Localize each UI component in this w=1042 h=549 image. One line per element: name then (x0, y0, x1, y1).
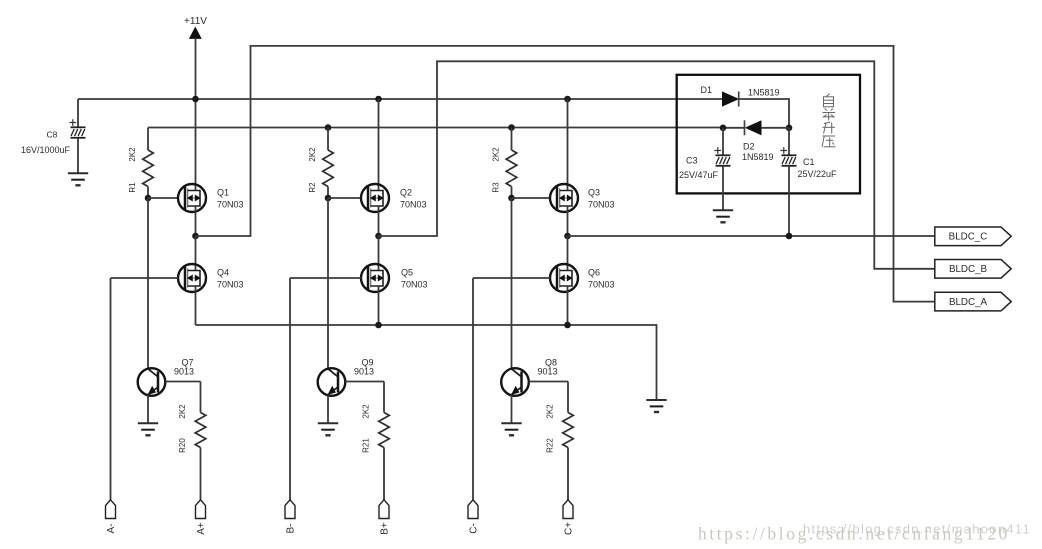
svg-text:C8: C8 (47, 130, 58, 140)
node phase B (375, 233, 382, 240)
svg-text:Q6: Q6 (588, 268, 600, 278)
svg-text:9013: 9013 (538, 367, 558, 377)
node Q5 source (375, 322, 382, 329)
svg-text:Q4: Q4 (217, 268, 229, 278)
svg-text:9013: 9013 (354, 367, 374, 377)
svg-text:70N03: 70N03 (400, 200, 427, 210)
svg-text:2K2: 2K2 (362, 404, 371, 419)
wire Q3 source (567, 206, 569, 236)
wire Q3 gate (512, 197, 551, 199)
svg-text:Q2: Q2 (400, 188, 412, 198)
wire R1 to Q7 collector (147, 198, 149, 369)
resistor R22 2K2 (563, 413, 574, 448)
capacitor C8 (77, 99, 79, 127)
connector B- (285, 500, 295, 519)
connector C- (468, 500, 478, 519)
svg-text:C3: C3 (686, 156, 698, 166)
svg-text:B+: B+ (380, 522, 391, 535)
wire R20 to A+ (200, 448, 202, 501)
wire D2 anode (761, 127, 789, 129)
svg-text:BLDC_C: BLDC_C (949, 232, 988, 243)
node C3 top / gate rail (720, 125, 727, 132)
resistor R1 2K2 (147, 128, 149, 151)
svg-text:2K2: 2K2 (308, 147, 317, 162)
node R1 bottom / Q1 gate (145, 195, 152, 202)
wire Q5 drain (378, 236, 380, 271)
svg-text:R3: R3 (492, 182, 501, 193)
diode D2 1N5819 (746, 121, 761, 135)
wire Q6 gate from C- (473, 277, 550, 279)
wire R3 to Q8 collector (511, 198, 513, 369)
transistor Q1 70N03 (178, 184, 206, 212)
svg-text:A-: A- (106, 524, 117, 534)
svg-text:R21: R21 (362, 438, 371, 453)
resistor R21 2K2 (379, 413, 390, 448)
node R2 bottom / Q2 gate (325, 195, 332, 202)
svg-text:70N03: 70N03 (217, 280, 244, 290)
connector A+ (196, 500, 206, 519)
svg-text:1N5819: 1N5819 (748, 88, 780, 98)
wire Q4 drain (195, 236, 197, 271)
ground at source rail (646, 399, 666, 401)
svg-text:Q3: Q3 (588, 188, 600, 198)
wire Q5 source (378, 286, 380, 325)
connector A- (106, 500, 116, 519)
wire Q8 base (529, 381, 568, 383)
node C1 bottom / phase C (786, 233, 793, 240)
wire phase C to BLDC_C (568, 235, 935, 237)
svg-text:9013: 9013 (174, 367, 194, 377)
wire Q7 base (166, 381, 201, 383)
svg-text:2K2: 2K2 (492, 147, 501, 162)
svg-text:B-: B- (286, 524, 297, 534)
wire A- drop (110, 278, 112, 500)
wire Q2 gate (328, 197, 361, 199)
transistor Q3 70N03 (550, 184, 578, 212)
diode D1 1N5819 (723, 92, 739, 106)
wire Q8 emitter (511, 395, 513, 424)
svg-text:Q1: Q1 (217, 188, 229, 198)
resistor R2 2K2 (327, 128, 329, 151)
svg-text:A+: A+ (196, 522, 207, 535)
wire Q4 gate from A- (111, 277, 179, 279)
connector BLDC_B (935, 260, 1011, 279)
svg-text:16V/1000uF: 16V/1000uF (21, 145, 71, 155)
svg-text:D2: D2 (743, 142, 755, 152)
wire Q1 source (195, 206, 197, 236)
wire D2 cathode to C3 (723, 127, 745, 129)
wire B- drop (289, 278, 291, 500)
svg-text:R20: R20 (178, 438, 187, 453)
transistor Q2 70N03 (361, 184, 389, 212)
wire R22 to C+ (567, 448, 569, 501)
capacitor C3 25V/47uF (722, 128, 724, 156)
transistor Q8 9013 (501, 368, 529, 396)
node +11V / Q1 drain (192, 96, 199, 103)
wire Q3 drain (567, 99, 569, 191)
wire bootstrap gate rail (148, 127, 723, 129)
node D2 anode / C1 top (786, 125, 793, 132)
svg-text:R1: R1 (128, 182, 137, 193)
wire Q4 source (195, 286, 197, 325)
bootstrap box (677, 75, 860, 194)
resistor R20 2K2 (195, 413, 206, 448)
svg-text:D1: D1 (701, 85, 713, 95)
wire +11V stem (195, 38, 197, 191)
svg-text:2K2: 2K2 (546, 404, 555, 419)
wire Q7 emitter (147, 395, 149, 424)
transistor Q4 70N03 (178, 264, 206, 292)
connector C+ (563, 500, 573, 519)
transistor Q5 70N03 (361, 264, 389, 292)
wire C- drop (472, 278, 474, 500)
capacitor C1 25V/22uF (788, 128, 790, 156)
node R3 bottom / Q3 gate (508, 195, 515, 202)
transistor Q6 70N03 (550, 264, 578, 292)
svg-text:70N03: 70N03 (401, 280, 428, 290)
svg-text:Q5: Q5 (401, 268, 413, 278)
svg-text:R22: R22 (546, 438, 555, 453)
ground under C3 (713, 209, 733, 211)
svg-text:+11V: +11V (184, 16, 207, 27)
node +11V / Q3 drain (564, 96, 571, 103)
wire base to R21 (383, 382, 385, 413)
connector BLDC_A (935, 292, 1011, 311)
wire R21 to B+ (383, 448, 385, 501)
svg-text:25V/47uF: 25V/47uF (679, 170, 719, 180)
node phase C (564, 233, 571, 240)
wire R2 to Q9 collector (327, 198, 329, 369)
svg-text:2K2: 2K2 (128, 147, 137, 162)
wire base to R20 (200, 382, 202, 413)
svg-text:https://blog.csdn.net/cnfang11: https://blog.csdn.net/cnfang1120 (698, 524, 1010, 544)
ground under Q9 (318, 422, 338, 424)
wire low-side source rail (196, 325, 657, 400)
svg-text:2K2: 2K2 (178, 404, 187, 419)
svg-text:70N03: 70N03 (588, 280, 615, 290)
connector BLDC_C (935, 227, 1011, 246)
transistor Q9 9013 (318, 368, 346, 396)
wire Q9 base (346, 381, 385, 383)
wire Q1 gate (148, 197, 178, 199)
wire +11V rail (78, 98, 723, 100)
ground under C8 (68, 172, 88, 174)
svg-text:BLDC_B: BLDC_B (949, 264, 988, 275)
transistor Q7 9013 (138, 368, 166, 396)
wire Q6 drain (567, 236, 569, 271)
node phase A (192, 233, 199, 240)
wire Q2 source (378, 206, 380, 236)
node Q6 source (564, 322, 571, 329)
label zi ju sheng ya (bootstrap boost) (822, 94, 836, 147)
connector B+ (379, 500, 389, 519)
svg-text:C1: C1 (803, 157, 815, 167)
svg-text:70N03: 70N03 (217, 200, 244, 210)
svg-text:C-: C- (469, 523, 480, 534)
wire base to R22 (567, 382, 569, 413)
node R2 top (325, 124, 332, 131)
wire Q9 emitter (327, 395, 329, 424)
power symbol +11V (190, 28, 201, 39)
resistor R3 2K2 (511, 128, 513, 151)
wire phase B to BLDC_B (379, 61, 935, 268)
svg-text:25V/22uF: 25V/22uF (798, 169, 838, 179)
wire Q2 drain (378, 99, 380, 191)
svg-text:70N03: 70N03 (588, 200, 615, 210)
node R3 top (508, 124, 515, 131)
svg-text:BLDC_A: BLDC_A (949, 297, 988, 308)
svg-text:1N5819: 1N5819 (742, 152, 774, 162)
wire Q6 source (567, 286, 569, 325)
wire Q5 gate from B- (290, 277, 361, 279)
ground under Q7 (138, 422, 158, 424)
ground under Q8 (501, 422, 521, 424)
wire phase A to BLDC_A (196, 46, 935, 302)
svg-text:R2: R2 (308, 182, 317, 193)
wire D1 cathode to C1 (740, 99, 790, 128)
svg-text:C+: C+ (564, 522, 575, 535)
node +11V / Q2 drain (375, 96, 382, 103)
